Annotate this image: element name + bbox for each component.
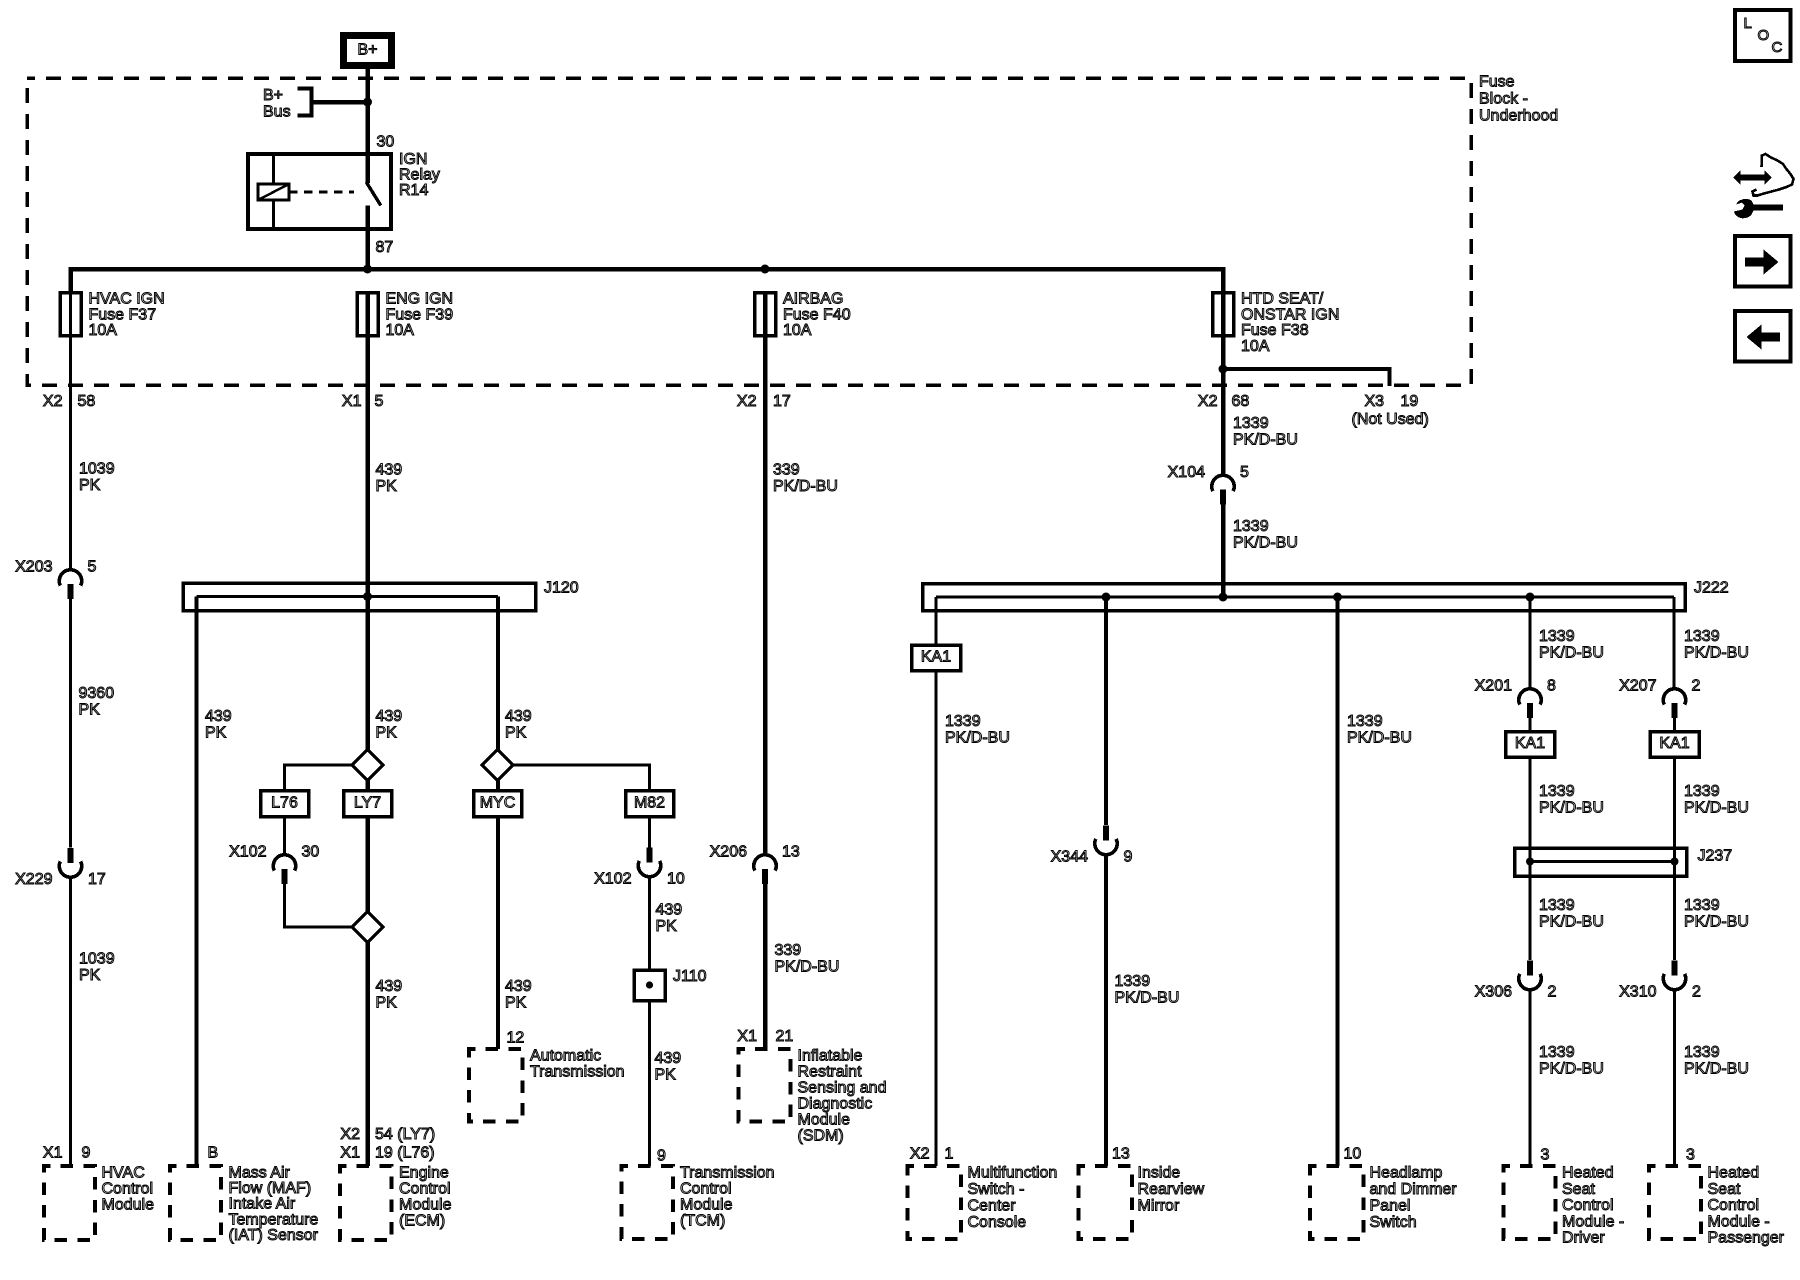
module box HVAC Control Module (44, 1166, 95, 1240)
svg-text:Center: Center (968, 1198, 1017, 1215)
svg-text:8: 8 (1547, 678, 1556, 695)
wire B+ feed down to relay pin 30 (365, 69, 370, 155)
svg-text:Module: Module (399, 1197, 452, 1214)
svg-text:439: 439 (656, 902, 683, 919)
svg-text:X1: X1 (340, 1145, 360, 1162)
svg-text:Fuse F39: Fuse F39 (386, 306, 454, 323)
svg-text:1339: 1339 (1684, 1044, 1720, 1061)
svg-text:2: 2 (1692, 678, 1701, 695)
svg-text:339: 339 (773, 462, 800, 479)
svg-text:3: 3 (1686, 1147, 1695, 1164)
svg-text:PK: PK (79, 967, 101, 984)
svg-text:439: 439 (655, 1050, 682, 1067)
svg-text:Sensing and: Sensing and (798, 1080, 887, 1097)
svg-text:9: 9 (82, 1145, 91, 1162)
svg-text:J237: J237 (1698, 848, 1733, 865)
connector X206 (754, 855, 776, 871)
module box Heated Seat Control Module Passenger (1649, 1166, 1701, 1239)
svg-text:LY7: LY7 (354, 795, 381, 812)
svg-text:Intake Air: Intake Air (229, 1196, 296, 1213)
svg-text:PK: PK (505, 995, 527, 1012)
svg-text:Module -: Module - (1708, 1213, 1770, 1230)
svg-text:Multifunction: Multifunction (968, 1165, 1058, 1182)
relay R14 dashed actuator link (289, 191, 354, 194)
relay coil box KA1 (912, 645, 961, 671)
svg-text:X102: X102 (229, 844, 266, 861)
svg-text:Heated: Heated (1562, 1165, 1614, 1182)
connector X102 (646, 848, 652, 863)
splice pack J222 (923, 584, 1686, 611)
svg-text:Control: Control (102, 1181, 154, 1198)
svg-text:1039: 1039 (79, 461, 115, 478)
svg-text:68: 68 (1232, 393, 1250, 410)
connector X104 (1212, 475, 1234, 491)
svg-text:5: 5 (88, 559, 97, 576)
node J222 drop 2 (1102, 593, 1111, 602)
module box ECM (340, 1166, 392, 1240)
module box SDM (739, 1049, 791, 1122)
svg-text:PK/D-BU: PK/D-BU (1539, 1061, 1604, 1078)
svg-text:Console: Console (968, 1214, 1027, 1231)
svg-text:9360: 9360 (79, 685, 115, 702)
svg-text:PK/D-BU: PK/D-BU (1684, 1061, 1749, 1078)
svg-text:1339: 1339 (1539, 628, 1575, 645)
svg-text:Transmission: Transmission (530, 1064, 625, 1081)
svg-text:10A: 10A (386, 322, 415, 339)
splice diamond S1 (352, 750, 383, 781)
svg-text:Inflatable: Inflatable (798, 1048, 863, 1065)
svg-text:Inside: Inside (1138, 1165, 1181, 1182)
engine code box LY7 (344, 791, 392, 817)
node J237 left (1526, 858, 1534, 866)
svg-text:(IAT) Sensor: (IAT) Sensor (229, 1227, 319, 1244)
node J120 feed (363, 592, 372, 601)
svg-text:X1: X1 (342, 393, 362, 410)
svg-text:1339: 1339 (1684, 628, 1720, 645)
svg-text:PK/D-BU: PK/D-BU (1539, 800, 1604, 817)
wire ENG IGN feed (365, 292, 370, 1166)
svg-text:PK/D-BU: PK/D-BU (1684, 645, 1749, 662)
svg-text:1: 1 (945, 1146, 954, 1163)
svg-text:Diagnostic: Diagnostic (798, 1096, 873, 1113)
relay coil box KA1 (1506, 732, 1555, 758)
svg-text:PK/D-BU: PK/D-BU (1539, 914, 1604, 931)
svg-text:1339: 1339 (1347, 713, 1383, 730)
node B+ bus junction (363, 98, 372, 107)
svg-text:5: 5 (1240, 464, 1249, 481)
svg-text:10: 10 (1344, 1146, 1362, 1163)
svg-text:10A: 10A (783, 322, 812, 339)
svg-text:X203: X203 (15, 559, 52, 576)
fuse F39 ENG IGN (357, 293, 378, 336)
splice diamond S2 (352, 912, 383, 943)
connector X344 (1103, 826, 1109, 841)
svg-text:Module -: Module - (1562, 1213, 1624, 1230)
relay R14 switch blade (366, 182, 381, 206)
svg-text:X207: X207 (1619, 678, 1656, 695)
svg-text:439: 439 (376, 462, 403, 479)
engine code box MYC (474, 791, 522, 817)
svg-text:(Not Used): (Not Used) (1352, 411, 1429, 428)
svg-text:B+: B+ (263, 87, 283, 104)
icon wrench (1734, 199, 1783, 218)
svg-text:13: 13 (782, 844, 800, 861)
svg-text:PK: PK (376, 478, 398, 495)
connector X201 (1519, 689, 1541, 705)
icon LOC box (1735, 10, 1791, 61)
icon connector view with arrow (1753, 154, 1794, 196)
svg-text:PK: PK (376, 725, 398, 742)
svg-text:X1: X1 (737, 1028, 757, 1045)
svg-text:KA1: KA1 (1659, 735, 1689, 752)
svg-text:Fuse F40: Fuse F40 (783, 306, 851, 323)
svg-text:Driver: Driver (1562, 1230, 1605, 1247)
svg-text:17: 17 (773, 393, 791, 410)
svg-text:ONSTAR IGN: ONSTAR IGN (1241, 306, 1339, 323)
relay R14 box (248, 154, 391, 229)
svg-text:KA1: KA1 (1515, 735, 1545, 752)
wire M82 to X102 (648, 817, 651, 849)
svg-text:O: O (1758, 27, 1770, 44)
svg-text:PK: PK (656, 918, 678, 935)
wire X229 to HVAC module (69, 877, 72, 1167)
svg-text:439: 439 (205, 708, 232, 725)
svg-text:J222: J222 (1694, 580, 1729, 597)
svg-text:(TCM): (TCM) (680, 1213, 725, 1230)
wire L76 to X102 (283, 817, 286, 856)
module box Automatic Transmission (469, 1049, 523, 1122)
svg-text:PK: PK (205, 725, 227, 742)
svg-text:X344: X344 (1051, 849, 1088, 866)
svg-text:Rearview: Rearview (1138, 1181, 1205, 1198)
svg-text:Module: Module (680, 1197, 733, 1214)
module box Inside Rearview Mirror (1079, 1166, 1133, 1239)
svg-text:J110: J110 (673, 968, 707, 985)
connector X203 (59, 570, 81, 586)
svg-text:PK/D-BU: PK/D-BU (1684, 914, 1749, 931)
svg-text:KA1: KA1 (921, 649, 951, 666)
svg-text:Passenger: Passenger (1708, 1230, 1785, 1247)
svg-text:Engine: Engine (399, 1165, 449, 1182)
svg-text:X201: X201 (1475, 678, 1512, 695)
fuse block underhood dashed border (27, 78, 1471, 385)
svg-text:PK/D-BU: PK/D-BU (1539, 645, 1604, 662)
svg-text:PK/D-BU: PK/D-BU (1115, 990, 1180, 1007)
icon forward arrow box (1735, 236, 1791, 287)
svg-text:Mirror: Mirror (1138, 1198, 1180, 1215)
wire X102 to J110 (648, 876, 651, 970)
wire J110 to TCM (648, 1001, 651, 1167)
svg-text:1339: 1339 (1684, 897, 1720, 914)
node J222 drop 4 (1333, 593, 1342, 602)
wire J120 left drop to MAF sensor (195, 597, 199, 1167)
svg-text:X306: X306 (1475, 984, 1512, 1001)
svg-text:Transmission: Transmission (680, 1165, 775, 1182)
connector X310 (1671, 961, 1677, 976)
wire branch to L76 (285, 765, 353, 791)
svg-text:Relay: Relay (399, 167, 440, 184)
node fuse F38 output branch (1219, 365, 1228, 374)
B+ Bus tap bracket (298, 89, 312, 116)
relay coil box KA1 (1650, 732, 1699, 758)
svg-text:17: 17 (88, 871, 106, 888)
module box Multifunction Switch - Center Console (908, 1166, 962, 1239)
svg-text:Fuse: Fuse (1479, 74, 1515, 91)
svg-text:2: 2 (1692, 984, 1701, 1001)
relay R14 coil (258, 184, 289, 200)
connector X207 (1663, 689, 1685, 705)
svg-text:30: 30 (302, 844, 320, 861)
svg-text:X3: X3 (1365, 393, 1385, 410)
svg-text:M82: M82 (634, 795, 665, 812)
icon back arrow box (1735, 311, 1791, 362)
svg-text:Panel: Panel (1370, 1198, 1411, 1215)
node bus at AIRBAG (761, 265, 770, 274)
svg-text:(SDM): (SDM) (798, 1128, 844, 1145)
svg-text:1339: 1339 (945, 713, 981, 730)
wire X310 to passenger module (1673, 989, 1676, 1166)
module box MAF IAT sensor (170, 1166, 221, 1240)
node bus at ENG IGN (363, 265, 372, 274)
svg-text:10A: 10A (1241, 338, 1270, 355)
power feed B+ (344, 36, 392, 66)
svg-text:439: 439 (505, 708, 532, 725)
svg-text:58: 58 (78, 393, 96, 410)
svg-text:Flow (MAF): Flow (MAF) (229, 1180, 312, 1197)
svg-text:Restraint: Restraint (798, 1064, 863, 1081)
svg-text:5: 5 (375, 393, 384, 410)
module box Headlamp and Dimmer Panel Switch (1310, 1166, 1364, 1239)
wire AIRBAG feed (763, 292, 768, 856)
svg-text:PK/D-BU: PK/D-BU (1233, 432, 1298, 449)
svg-text:IGN: IGN (399, 151, 427, 168)
svg-text:L76: L76 (271, 795, 298, 812)
wire X206 to SDM (763, 883, 768, 1049)
svg-text:439: 439 (376, 978, 403, 995)
svg-text:Mass Air: Mass Air (229, 1165, 291, 1182)
svg-text:19: 19 (1401, 393, 1419, 410)
wire KA1 to J237 passenger side (1673, 757, 1676, 862)
svg-text:R14: R14 (399, 182, 428, 199)
wire X306 to driver module (1529, 989, 1532, 1166)
wire KA1 to J237 driver side (1529, 757, 1532, 862)
svg-text:1339: 1339 (1115, 973, 1151, 990)
svg-text:Control: Control (1708, 1197, 1760, 1214)
wire X203 to X229 (69, 598, 72, 848)
wire X207 to KA1 (1673, 717, 1676, 732)
fuse F37 HVAC IGN (60, 293, 81, 336)
connector X229 (67, 848, 73, 863)
wire J222 drop 4 (1529, 597, 1532, 690)
wire branch to M82 (513, 765, 650, 791)
svg-text:13: 13 (1112, 1146, 1130, 1163)
svg-text:L: L (1744, 15, 1752, 32)
svg-text:J120: J120 (544, 580, 579, 597)
svg-text:X2: X2 (910, 1146, 930, 1163)
wire HVAC ign feed upper (69, 292, 72, 571)
svg-text:Switch: Switch (1370, 1214, 1417, 1231)
fuse F40 AIRBAG (755, 293, 776, 336)
svg-text:X2: X2 (340, 1126, 360, 1143)
svg-text:X2: X2 (737, 393, 757, 410)
svg-text:HTD SEAT/: HTD SEAT/ (1241, 291, 1324, 308)
svg-text:Heated: Heated (1708, 1165, 1760, 1182)
svg-text:1039: 1039 (79, 951, 115, 968)
svg-text:PK: PK (79, 477, 101, 494)
svg-text:1339: 1339 (1233, 518, 1269, 535)
svg-text:1339: 1339 (1684, 783, 1720, 800)
connector X306 (1527, 961, 1533, 976)
wire J120 right drop (496, 597, 500, 1050)
svg-text:X2: X2 (1198, 393, 1218, 410)
svg-text:HVAC IGN: HVAC IGN (89, 291, 165, 308)
wire J237 to X310 (1673, 862, 1676, 961)
svg-text:439: 439 (505, 978, 532, 995)
splice pack J120 (183, 583, 536, 611)
svg-text:1339: 1339 (1233, 415, 1269, 432)
svg-text:PK: PK (505, 725, 527, 742)
svg-text:X102: X102 (594, 871, 631, 888)
svg-text:Underhood: Underhood (1479, 108, 1558, 125)
svg-text:PK/D-BU: PK/D-BU (1347, 730, 1412, 747)
svg-text:X1: X1 (43, 1145, 63, 1162)
svg-text:PK/D-BU: PK/D-BU (773, 478, 838, 495)
svg-text:3: 3 (1541, 1147, 1550, 1164)
wire X104 to J222 (1221, 504, 1226, 598)
svg-text:X104: X104 (1168, 464, 1205, 481)
fuse F38 HTD SEAT/ONSTAR IGN (1213, 293, 1234, 336)
splice diamond S3 (482, 750, 513, 781)
svg-text:Switch -: Switch - (968, 1181, 1025, 1198)
wire bus from relay 87 to fuses (71, 269, 1224, 294)
svg-text:PK: PK (376, 995, 398, 1012)
svg-text:MYC: MYC (480, 795, 516, 812)
svg-text:PK/D-BU: PK/D-BU (1684, 800, 1749, 817)
svg-text:Bus: Bus (263, 104, 291, 121)
svg-text:Headlamp: Headlamp (1370, 1165, 1443, 1182)
node J237 right (1671, 858, 1679, 866)
svg-text:9: 9 (657, 1148, 666, 1165)
svg-text:PK/D-BU: PK/D-BU (945, 730, 1010, 747)
svg-text:1339: 1339 (1539, 783, 1575, 800)
svg-text:Automatic: Automatic (530, 1048, 601, 1065)
module box Heated Seat Control Module Driver (1504, 1166, 1556, 1239)
wire X201 to KA1 (1529, 717, 1532, 732)
svg-text:Fuse F37: Fuse F37 (89, 306, 157, 323)
svg-text:Seat: Seat (1562, 1181, 1595, 1198)
svg-text:C: C (1772, 39, 1783, 56)
svg-text:X2: X2 (43, 393, 63, 410)
svg-text:Control: Control (1562, 1197, 1614, 1214)
node J222 drop 5 (1526, 593, 1535, 602)
wire relay 87 stub (365, 206, 370, 230)
svg-text:X310: X310 (1619, 984, 1656, 1001)
relay R14 switch feed (365, 154, 370, 183)
svg-text:87: 87 (376, 239, 394, 256)
svg-text:10A: 10A (89, 322, 118, 339)
connector X102 (273, 855, 295, 871)
svg-text:PK/D-BU: PK/D-BU (775, 959, 840, 976)
node J222 feed (1219, 593, 1228, 602)
svg-text:Module: Module (798, 1112, 851, 1129)
svg-text:2: 2 (1548, 984, 1557, 1001)
wire J222 drop 3 (1336, 597, 1340, 1166)
svg-text:Seat: Seat (1708, 1181, 1741, 1198)
relay R14 coil wires (272, 154, 275, 184)
engine code box M82 (626, 791, 674, 817)
wire HTD SEAT feed (1221, 292, 1226, 476)
svg-text:Control: Control (399, 1181, 451, 1198)
svg-text:9: 9 (1124, 849, 1133, 866)
svg-text:Temperature: Temperature (229, 1211, 319, 1228)
svg-text:X229: X229 (15, 871, 52, 888)
svg-text:Fuse F38: Fuse F38 (1241, 322, 1309, 339)
svg-text:PK/D-BU: PK/D-BU (1233, 535, 1298, 552)
svg-text:B+: B+ (357, 42, 377, 59)
svg-text:339: 339 (775, 942, 802, 959)
svg-text:X206: X206 (710, 844, 747, 861)
engine code box L76 (261, 791, 309, 817)
svg-text:AIRBAG: AIRBAG (783, 291, 843, 308)
svg-text:Block -: Block - (1479, 91, 1528, 108)
wire X102 to splice diamond S2 (285, 883, 353, 927)
svg-text:30: 30 (377, 134, 395, 151)
wire J237 to X306 (1529, 862, 1532, 961)
wire J222 drop 2 (1104, 597, 1108, 825)
svg-text:1339: 1339 (1539, 1044, 1575, 1061)
wire J222 drop 1 (935, 597, 938, 1166)
module box TCM (622, 1166, 674, 1239)
svg-text:B: B (208, 1145, 219, 1162)
svg-text:(ECM): (ECM) (399, 1213, 445, 1230)
svg-text:54 (LY7): 54 (LY7) (375, 1126, 435, 1143)
wire X344 to mirror (1104, 854, 1108, 1166)
splice J110 (634, 970, 665, 1001)
svg-text:and Dimmer: and Dimmer (1370, 1181, 1458, 1198)
svg-text:21: 21 (776, 1028, 794, 1045)
svg-text:HVAC: HVAC (102, 1165, 145, 1182)
svg-text:1339: 1339 (1539, 897, 1575, 914)
wire J222 drop 5 (1673, 597, 1676, 690)
svg-text:ENG IGN: ENG IGN (386, 291, 454, 308)
svg-text:Module: Module (102, 1197, 155, 1214)
splice pack J237 (1515, 848, 1687, 876)
svg-text:PK: PK (79, 702, 101, 719)
svg-text:19 (L76): 19 (L76) (375, 1145, 435, 1162)
svg-text:PK: PK (655, 1067, 677, 1084)
svg-text:12: 12 (507, 1030, 525, 1047)
svg-text:10: 10 (667, 871, 685, 888)
svg-text:Control: Control (680, 1181, 732, 1198)
svg-text:439: 439 (376, 708, 403, 725)
wire branch to X3 not used (1223, 369, 1390, 386)
